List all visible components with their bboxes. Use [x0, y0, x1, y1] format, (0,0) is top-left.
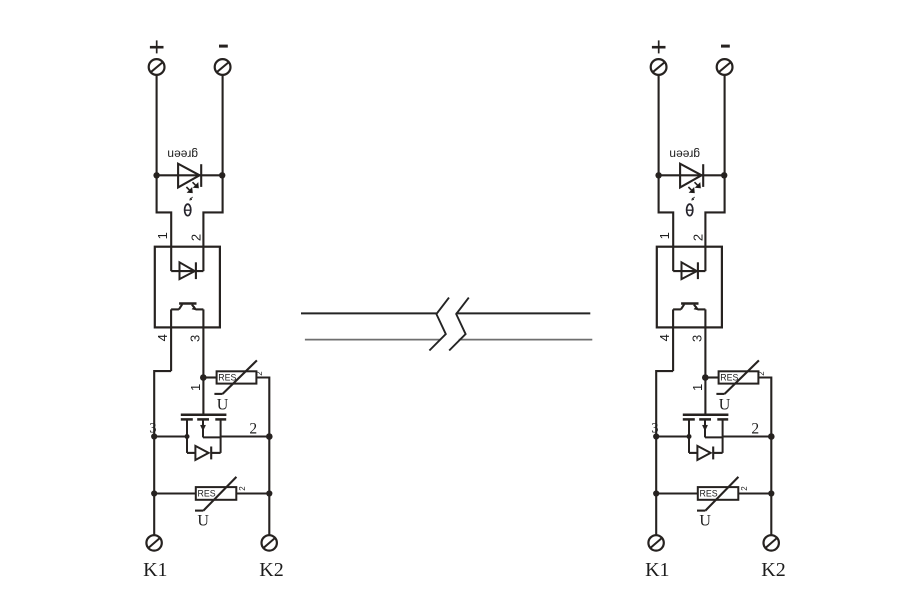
- minus polarity label (right module): [721, 45, 730, 48]
- plus polarity label (left module): [150, 40, 164, 53]
- wire: pin 4 step left to K1 rail (left module): [154, 371, 171, 493]
- optocoupler internal LED triangle (left module): [180, 262, 195, 279]
- MOSFET Q1 gate line (right module): [683, 413, 729, 416]
- LED D1 cathode bar (left module): [200, 164, 202, 187]
- varistor R2 body (RES box) (left module): [196, 487, 237, 500]
- wire: K2 rail down to terminal (left module): [268, 437, 270, 536]
- svg-text:2: 2: [255, 371, 264, 376]
- varistor R2 diagonal stroke (left module): [195, 477, 236, 511]
- wire from + terminal down to LED anode node (right module): [658, 75, 660, 175]
- wire: drain rail to K2 rail (left module): [221, 435, 270, 437]
- body diode D2 cathode bar (right module): [712, 447, 714, 460]
- svg-text:2: 2: [238, 486, 247, 491]
- wire: K2 rail down to terminal (right module): [770, 437, 772, 536]
- phototransistor emitter shoulder wire (right module): [698, 308, 706, 310]
- screw terminal + (right module): [651, 59, 667, 75]
- screw terminal K2 (right module): [764, 535, 779, 550]
- luminous flux symbol (theta/phi glyph, rotated) (right module): [687, 197, 695, 216]
- cable break mark, left zigzag: [429, 298, 449, 351]
- svg-text:2: 2: [690, 234, 705, 241]
- svg-text:1: 1: [657, 232, 672, 239]
- svg-text:U: U: [719, 397, 731, 414]
- node: K2 rail / varistor R2 junction (left module): [266, 490, 272, 496]
- svg-text:K1: K1: [645, 559, 669, 581]
- svg-text:3: 3: [651, 420, 658, 436]
- MOSFET Q1 bulk leg with arrow (left module): [200, 419, 220, 437]
- wire across LED row (left module): [157, 174, 223, 176]
- optocoupler internal LED triangle (right module): [682, 262, 697, 279]
- LED emission arrows (left module): [186, 182, 198, 193]
- cable conductor bottom, right segment: [459, 339, 593, 341]
- svg-text:2: 2: [249, 421, 257, 438]
- body diode D2 triangle (left module): [195, 446, 208, 460]
- screw terminal K1 (right module): [648, 535, 663, 550]
- node: gate / varistor R1 junction (right module): [702, 374, 709, 381]
- body diode D2 cathode bar (left module): [210, 447, 212, 460]
- svg-text:K1: K1: [143, 559, 167, 581]
- wire K1 rail to varistor R2 (left module): [154, 492, 196, 494]
- varistor R2 body (RES box) (right module): [698, 487, 739, 500]
- svg-text:RES: RES: [720, 372, 738, 382]
- svg-text:green: green: [669, 148, 700, 162]
- MOSFET Q1 drain leg (left module): [220, 419, 222, 453]
- varistor R1 diagonal stroke (right module): [716, 360, 759, 394]
- cable break mark, right zigzag: [449, 298, 469, 351]
- MOSFET Q1 gate line (left module): [181, 413, 227, 416]
- wire: pin 4 step left to K1 rail (right module): [656, 371, 673, 493]
- cable conductor bottom, left segment: [305, 339, 440, 341]
- svg-text:2: 2: [751, 421, 759, 438]
- wire from varistor R1 to drain rail (right module): [758, 378, 771, 437]
- wire: optocoupler pin 4 down (left module): [170, 309, 172, 371]
- plus polarity label (right module): [652, 40, 666, 53]
- optocoupler phototransistor base bar (left module): [179, 302, 196, 305]
- screw terminal - (left module): [215, 59, 231, 75]
- luminous flux symbol (theta/phi glyph, rotated) (left module): [185, 197, 193, 216]
- wire: K1 rail down to terminal (right module): [655, 494, 657, 536]
- optocoupler U1 body (left module): [155, 247, 220, 328]
- wire from + terminal down to LED anode node (left module): [156, 75, 158, 175]
- wire: source rail to K1 rail (left module): [154, 435, 187, 437]
- node: source leg junction (left module): [185, 434, 190, 439]
- svg-text:4: 4: [155, 334, 170, 341]
- screw terminal + (left module): [149, 59, 165, 75]
- node: LED cathode junction (right module): [721, 172, 727, 178]
- svg-text:2: 2: [740, 486, 749, 491]
- wire: optocoupler pin 4 down (right module): [672, 309, 674, 371]
- svg-text:2: 2: [757, 371, 766, 376]
- MOSFET Q1 channel segments (left module): [181, 418, 226, 421]
- svg-text:K2: K2: [761, 559, 785, 581]
- varistor R1 body (RES box) (left module): [217, 371, 257, 383]
- wire varistor R2 to K2 rail (left module): [236, 492, 269, 494]
- body diode D2 cathode wire (right module): [713, 452, 722, 454]
- LED D1 green, triangle (left module): [178, 164, 200, 188]
- phototransistor collector shoulder wire (left module): [171, 308, 179, 310]
- phototransistor collector leg (right module): [681, 304, 684, 309]
- LED emission arrows (right module): [688, 182, 700, 193]
- MOSFET Q1 channel segments (right module): [683, 418, 728, 421]
- minus polarity label (left module): [219, 45, 228, 48]
- phototransistor emitter shoulder wire (left module): [196, 308, 204, 310]
- node: K2 rail / drain junction (left module): [266, 433, 273, 440]
- wire to varistor R1 (right module): [705, 376, 718, 378]
- cable conductor top, right segment: [456, 312, 590, 314]
- node: K1 rail / varistor R2 junction (right module): [653, 490, 659, 496]
- screw terminal K1 (left module): [146, 535, 161, 550]
- svg-text:3: 3: [690, 335, 705, 342]
- phototransistor emitter leg with arrow (left module): [192, 305, 196, 311]
- wire from - terminal down to LED cathode node (right module): [724, 75, 726, 175]
- phototransistor collector shoulder wire (right module): [673, 308, 681, 310]
- svg-text:3: 3: [149, 420, 156, 436]
- LED D1 green, triangle (right module): [680, 164, 702, 188]
- screw terminal - (right module): [717, 59, 733, 75]
- screw terminal K2 (left module): [262, 535, 277, 550]
- body diode D2 cathode wire (left module): [211, 452, 220, 454]
- MOSFET Q1 bulk leg with arrow (right module): [702, 419, 722, 437]
- MOSFET Q1 source leg (right module): [688, 419, 690, 453]
- node: K2 rail / drain junction (right module): [768, 433, 775, 440]
- wire: cathode node to optocoupler pin 2 (right module): [705, 175, 724, 271]
- optocoupler phototransistor base bar (right module): [681, 302, 698, 305]
- LED D1 cathode bar (right module): [702, 164, 704, 187]
- node: K1 rail / varistor R2 junction (left module): [151, 490, 157, 496]
- svg-text:1: 1: [155, 232, 170, 239]
- svg-text:RES: RES: [218, 372, 236, 382]
- wire: anode node to optocoupler pin 1 (left module): [157, 175, 172, 271]
- optocoupler internal LED wire (left module): [171, 270, 203, 272]
- svg-text:RES: RES: [700, 489, 718, 499]
- wire: anode node to optocoupler pin 1 (right module): [659, 175, 674, 271]
- optocoupler internal LED cathode bar (left module): [195, 262, 197, 279]
- node: gate / varistor R1 junction (left module): [200, 374, 207, 381]
- optocoupler internal LED wire (right module): [673, 270, 705, 272]
- varistor R1 diagonal stroke (left module): [214, 360, 257, 394]
- node: K1 rail / source junction (left module): [151, 433, 157, 439]
- phototransistor collector leg (left module): [179, 304, 182, 309]
- wire K1 rail to varistor R2 (right module): [656, 492, 698, 494]
- wire from - terminal down to LED cathode node (left module): [222, 75, 224, 175]
- node: K2 rail / varistor R2 junction (right module): [768, 490, 774, 496]
- body diode D2 anode wire (right module): [689, 452, 697, 454]
- phototransistor emitter leg with arrow (right module): [694, 305, 698, 311]
- svg-text:K2: K2: [259, 559, 283, 581]
- node: LED anode junction (left module): [153, 172, 159, 178]
- wire from varistor R1 to drain rail (left module): [256, 378, 269, 437]
- svg-text:4: 4: [657, 334, 672, 341]
- svg-text:U: U: [699, 513, 711, 530]
- wire: cathode node to optocoupler pin 2 (left module): [203, 175, 222, 271]
- svg-text:1: 1: [690, 384, 705, 391]
- node: K1 rail / source junction (right module): [653, 433, 659, 439]
- wire: optocoupler pin 3 down to gate node (left module): [202, 309, 204, 414]
- node: source leg junction (right module): [687, 434, 692, 439]
- svg-text:2: 2: [188, 234, 203, 241]
- node: LED cathode junction (left module): [219, 172, 225, 178]
- svg-text:1: 1: [188, 384, 203, 391]
- body diode D2 anode wire (left module): [187, 452, 195, 454]
- svg-text:RES: RES: [198, 489, 216, 499]
- wire: optocoupler pin 3 down to gate node (right module): [704, 309, 706, 414]
- cable conductor top, left segment: [301, 312, 436, 314]
- wire: K1 rail down to terminal (left module): [153, 494, 155, 536]
- MOSFET Q1 source leg (left module): [186, 419, 188, 453]
- wire to varistor R1 (left module): [203, 376, 216, 378]
- svg-text:U: U: [197, 513, 209, 530]
- varistor R2 diagonal stroke (right module): [697, 477, 738, 511]
- svg-text:U: U: [217, 397, 229, 414]
- wire varistor R2 to K2 rail (right module): [738, 492, 771, 494]
- svg-text:3: 3: [188, 335, 203, 342]
- optocoupler U1 body (right module): [657, 247, 722, 328]
- body diode D2 triangle (right module): [697, 446, 710, 460]
- optocoupler internal LED cathode bar (right module): [697, 262, 699, 279]
- wire: drain rail to K2 rail (right module): [723, 435, 772, 437]
- varistor R1 body (RES box) (right module): [719, 371, 759, 383]
- node: LED anode junction (right module): [655, 172, 661, 178]
- svg-text:green: green: [167, 148, 198, 162]
- wire across LED row (right module): [659, 174, 725, 176]
- wire: source rail to K1 rail (right module): [656, 435, 689, 437]
- MOSFET Q1 drain leg (right module): [722, 419, 724, 453]
